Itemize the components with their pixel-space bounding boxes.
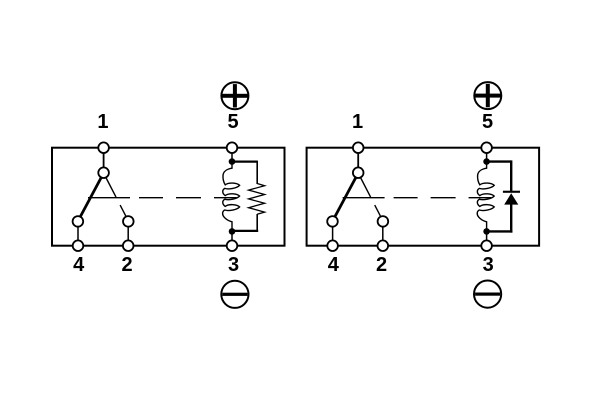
svg-text:4: 4	[328, 254, 340, 276]
svg-text:2: 2	[121, 254, 132, 276]
svg-text:2: 2	[376, 254, 387, 276]
svg-text:3: 3	[483, 254, 494, 276]
svg-text:5: 5	[227, 111, 238, 133]
svg-text:4: 4	[73, 254, 85, 276]
svg-text:3: 3	[228, 254, 239, 276]
svg-text:5: 5	[482, 111, 493, 133]
svg-text:1: 1	[352, 111, 363, 133]
svg-text:1: 1	[97, 111, 108, 133]
